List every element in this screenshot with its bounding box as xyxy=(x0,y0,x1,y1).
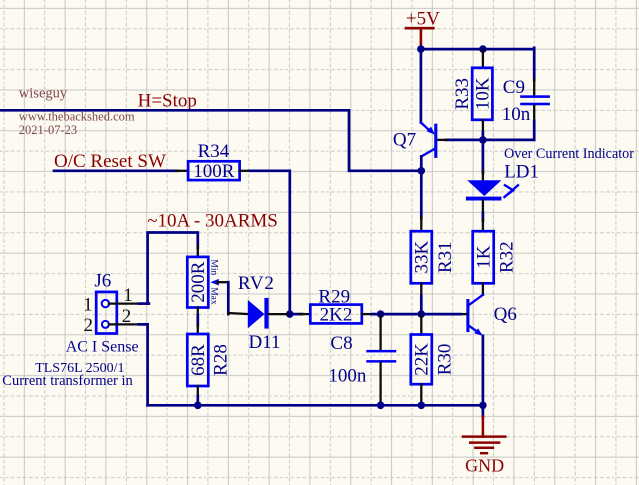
svg-text:1K: 1K xyxy=(474,245,495,269)
pin R29.2 xyxy=(362,313,374,315)
connector J6 pin circle 2 xyxy=(102,321,109,328)
ground bar 1 xyxy=(463,435,505,438)
pin R28.2 xyxy=(197,386,199,398)
svg-text:Q6: Q6 xyxy=(494,304,517,325)
svg-text:AC I Sense: AC I Sense xyxy=(66,339,139,356)
pin C8.1 xyxy=(379,315,381,350)
pin R31.2 xyxy=(420,283,422,298)
pin R31.1 xyxy=(420,217,422,231)
transistor Q6 emitter line xyxy=(469,326,477,332)
svg-text:C9: C9 xyxy=(503,77,525,98)
svg-text:22K: 22K xyxy=(412,343,433,376)
resistor R33 box xyxy=(472,68,492,120)
pin R33.1 xyxy=(482,50,484,68)
svg-text:C8: C8 xyxy=(330,333,352,354)
svg-text:LD1: LD1 xyxy=(504,162,539,183)
pin R32.1 xyxy=(482,219,484,231)
svg-text:R33: R33 xyxy=(452,78,473,110)
wire Q7 collector down xyxy=(420,156,423,218)
wire R33 bottom to base node xyxy=(482,132,485,140)
transistor Q6 collector line xyxy=(469,295,483,305)
pin R30.1 xyxy=(420,315,422,335)
ground symbol stem (wire) xyxy=(482,405,485,417)
pin J6.1 xyxy=(109,302,141,304)
connector J6 box xyxy=(96,292,117,334)
pin Q6 base xyxy=(459,313,467,315)
pin R33.2 xyxy=(482,120,484,134)
pin RV2.2 / 200R to 68R series link xyxy=(197,308,199,317)
pin LD1 anode xyxy=(482,171,484,181)
svg-text:R32: R32 xyxy=(496,241,517,273)
svg-text:Max: Max xyxy=(208,287,218,305)
svg-text:J6: J6 xyxy=(94,271,111,292)
svg-text:2K2: 2K2 xyxy=(320,304,353,325)
svg-text:Q7: Q7 xyxy=(393,130,416,151)
pin R29.1 xyxy=(299,313,310,315)
pin C9.2 xyxy=(533,105,535,122)
junction C8 top xyxy=(377,310,385,318)
junction 68R on rail xyxy=(194,402,202,410)
transistor Q7 collector line xyxy=(421,149,435,157)
LED LD1 emission arrow 1 xyxy=(505,185,513,196)
svg-text:10n: 10n xyxy=(502,104,531,125)
wire J6.2 down to ground rail xyxy=(139,324,148,405)
pin C8.2 xyxy=(379,363,381,404)
wire R31 bottom to mid node xyxy=(420,296,423,314)
power +5V stem xyxy=(420,28,423,47)
transistor Q6 base bar xyxy=(466,301,469,331)
resistor R32 box xyxy=(473,231,494,283)
capacitor C8 plate 2 xyxy=(366,360,396,363)
resistor R29 box xyxy=(310,305,362,324)
power +5V bar symbol xyxy=(406,27,433,30)
svg-text:200R: 200R xyxy=(188,261,209,303)
trimpot RV2 wiper line xyxy=(217,281,228,283)
wire R34 to D11 junction xyxy=(250,171,290,314)
wire O/C Reset SW to R34 xyxy=(54,169,178,172)
svg-text:R28: R28 xyxy=(211,344,232,376)
pin D11 cathode xyxy=(269,313,288,315)
transistor Q7 emitter arrowhead xyxy=(427,127,435,135)
ground bar 4 xyxy=(481,452,487,455)
svg-text:O/C Reset SW: O/C Reset SW xyxy=(54,151,166,172)
svg-text:RV2: RV2 xyxy=(238,273,274,294)
trimpot RV2 200R box xyxy=(187,257,208,308)
svg-text:100n: 100n xyxy=(328,365,367,386)
wire H=Stop horizontal from left edge xyxy=(0,110,421,171)
junction R30 top xyxy=(418,310,426,318)
pin R32.2 xyxy=(482,283,484,294)
junction at R33 top xyxy=(479,45,487,53)
svg-text:R31: R31 xyxy=(435,241,456,273)
pin Q7 base xyxy=(437,139,447,141)
pin R30.2 xyxy=(420,384,422,404)
junction D11 cathode / R34 node xyxy=(286,310,294,318)
connector J6 pin circle 1 xyxy=(102,300,109,307)
svg-text:GND: GND xyxy=(465,456,504,476)
capacitor C8 plate 1 xyxy=(366,350,396,353)
transistor Q6 emitter arrowhead xyxy=(474,328,483,336)
ground symbol stem xyxy=(482,417,485,437)
pin RV2.1 xyxy=(197,246,199,257)
resistor R30 box xyxy=(411,335,432,385)
wire C9 bottom to base node xyxy=(483,121,534,140)
svg-text:100R: 100R xyxy=(193,161,235,182)
junction Q6 emitter on rail xyxy=(479,402,487,410)
resistor R28 68R box xyxy=(187,334,208,386)
svg-text:1: 1 xyxy=(83,294,93,315)
svg-text:68R: 68R xyxy=(188,344,209,376)
wire J6 pin1 up and over to RV2 top xyxy=(148,233,198,304)
wire base node down to LD1 xyxy=(482,140,485,173)
pin R34.1 xyxy=(176,170,188,172)
wire J6.1 to corner xyxy=(139,302,149,305)
wire 68R bottom to rail xyxy=(196,396,199,405)
svg-text:2: 2 xyxy=(84,315,94,336)
LED LD1 cathode bar xyxy=(466,197,502,201)
svg-text:H=Stop: H=Stop xyxy=(138,91,197,112)
svg-text:Min: Min xyxy=(208,259,218,275)
transistor Q7 base bar xyxy=(434,125,437,156)
svg-text:Over Current Indicator: Over Current Indicator xyxy=(504,146,634,162)
svg-text:Current transformer in: Current transformer in xyxy=(2,373,133,389)
svg-text:R30: R30 xyxy=(435,344,456,376)
pin R34.2 xyxy=(240,170,252,172)
svg-text:10K: 10K xyxy=(473,77,494,110)
wire Q7 base node xyxy=(446,139,483,142)
wire +5V rail top xyxy=(421,48,534,51)
resistor R31 box xyxy=(411,231,432,283)
LED LD1 triangle xyxy=(467,180,501,196)
transistor Q7 emitter line xyxy=(421,123,430,131)
wire C9 top from rail corner xyxy=(533,48,536,80)
wire LD1 to R32 xyxy=(482,213,485,221)
wire +5V down to Q7 emitter xyxy=(420,49,423,122)
resistor R34 box xyxy=(188,161,240,180)
pin D11 anode xyxy=(228,313,248,314)
diode D11 cathode bar xyxy=(264,298,268,329)
capacitor C9 plate 1 xyxy=(520,95,550,98)
svg-text:R34: R34 xyxy=(198,141,230,162)
capacitor C9 plate 2 xyxy=(520,103,550,106)
junction at Q7 base node xyxy=(479,136,487,144)
wire D11 node to R29 xyxy=(290,313,302,316)
svg-text:+5V: +5V xyxy=(406,8,440,29)
pin LD1 cathode xyxy=(482,201,484,215)
trimpot RV2 wiper arrowhead xyxy=(210,279,218,286)
wire Q6 emitter to ground rail xyxy=(482,336,485,405)
junction at +5V stem xyxy=(417,45,425,53)
pin R28.1 xyxy=(197,325,199,334)
pin C9.1 xyxy=(533,79,535,95)
ground bar 2 xyxy=(470,441,499,444)
wire 200R-68R mid xyxy=(196,315,199,326)
svg-text:D11: D11 xyxy=(249,332,281,353)
svg-text:33K: 33K xyxy=(412,241,433,274)
wire RV2 wiper down to D11 xyxy=(227,282,230,314)
svg-text:~10A - 30ARMS: ~10A - 30ARMS xyxy=(147,210,278,231)
diode D11 triangle xyxy=(248,300,265,328)
pin J6.2 xyxy=(109,323,141,325)
svg-text:2021-07-23: 2021-07-23 xyxy=(19,123,77,137)
ground bar 3 xyxy=(475,446,493,449)
svg-text:wiseguy: wiseguy xyxy=(19,86,68,102)
LED LD1 emission arrow 2 xyxy=(504,185,518,197)
junction C8 bottom on rail xyxy=(377,402,385,410)
wire ground rail xyxy=(148,404,483,407)
wire R29 to Q6 base xyxy=(372,313,461,316)
junction H=Stop node xyxy=(418,167,426,175)
junction R30 bottom on rail xyxy=(418,402,426,410)
